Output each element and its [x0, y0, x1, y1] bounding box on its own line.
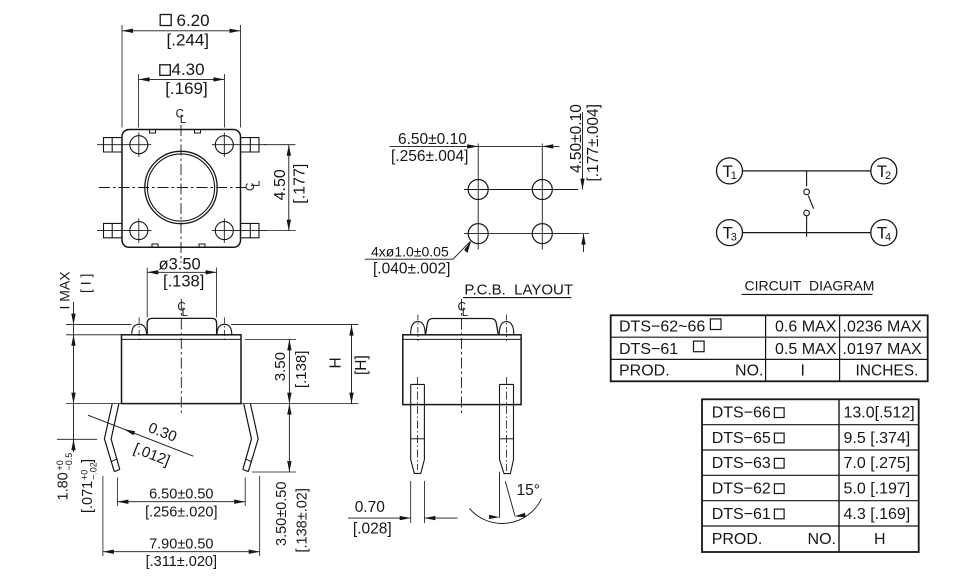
pcb hole bottom-right [532, 224, 552, 244]
svg-text:5.0 [.197]: 5.0 [.197] [844, 481, 911, 498]
dimension 0.30 text [146, 419, 179, 445]
pcb horizontal line lower row [464, 233, 578, 235]
table1 row lines [611, 337, 928, 359]
svg-text:9.5 [.374]: 9.5 [.374] [844, 430, 911, 447]
svg-text:4.3 [.169]: 4.3 [.169] [844, 506, 911, 523]
front dimension [.138] top text [163, 272, 204, 290]
svg-text:H: H [327, 357, 344, 368]
side centerline symbol [458, 302, 469, 319]
dimension 0.70 arrows [400, 516, 436, 520]
svg-text:6.50±0.50: 6.50±0.50 [149, 486, 213, 502]
switch lower stem wire [806, 216, 808, 237]
svg-text:[.256±.020]: [.256±.020] [145, 504, 217, 520]
svg-text:[.071: [.071 [80, 481, 96, 513]
pcb horizontal line upper row [464, 189, 578, 191]
dimension 0.70 line right [424, 517, 457, 519]
pin bottom-left crosshair [138, 218, 140, 242]
side right peg [499, 322, 514, 335]
dimension 6.20 extension lines [122, 25, 241, 128]
circuit diagram title [745, 278, 875, 294]
dimension 1.80 text [55, 453, 74, 501]
[ I ] text [78, 274, 94, 293]
left side tab upper [104, 138, 123, 152]
dimension 4.30 text [172, 60, 205, 79]
dimension 0.30 leader arrow [124, 429, 135, 435]
I MAX arrows [71, 314, 75, 346]
front free-position line right segment [231, 324, 359, 326]
top view horizontal centerline [99, 187, 249, 189]
dimension 3.50 body arrows [287, 339, 291, 403]
dimension 7.90 text [149, 536, 213, 552]
table1 outer border [611, 315, 928, 381]
side left leg centerline [417, 377, 419, 470]
pin centerline right upper [212, 144, 266, 146]
svg-text:[.138]: [.138] [293, 351, 310, 389]
side button [426, 318, 499, 334]
side body lid line [403, 338, 521, 340]
svg-text:15°: 15° [517, 482, 540, 499]
svg-text:I: I [801, 363, 805, 380]
svg-text:DTS−62~66: DTS−62~66 [619, 319, 705, 336]
dimension [.028] text [353, 521, 392, 538]
front right peg centerline [223, 318, 225, 342]
dimension 4.50 pcb text [568, 104, 585, 173]
dimension 1.80 arrows [71, 393, 75, 451]
front body [122, 335, 242, 404]
dimension 7.90 extension lines [103, 476, 260, 556]
dimension 6.50 pcb line [390, 145, 560, 147]
dimension 6.20 line [122, 30, 241, 32]
dimension H line [351, 325, 353, 404]
dimension [.244] text [167, 30, 210, 49]
dimension [.138+-.02] text [295, 488, 311, 552]
side 15deg arc arrows [489, 513, 526, 519]
dimension 4.50 pcb lower leader line [583, 234, 585, 253]
svg-text:1: 1 [731, 170, 737, 182]
side left peg centerline [417, 315, 419, 342]
pin centerline left lower [97, 230, 151, 232]
dimension H text [327, 357, 344, 368]
dimension 4.50 pcb upper leader line [582, 112, 584, 190]
terminal T1 [717, 158, 743, 184]
dimension [.169] text [165, 79, 208, 98]
dimension [.177] text [292, 164, 309, 204]
dimension 6.50 front extension lines [117, 478, 245, 507]
front dimension o3.50 text [159, 255, 201, 273]
switch upper stem wire [806, 171, 808, 187]
I MAX text [57, 271, 73, 310]
bottom edge notch [152, 244, 205, 247]
pin centerline left upper [97, 144, 151, 146]
svg-text:[.169]: [.169] [165, 79, 208, 98]
dimension 0.30 leader line [88, 415, 193, 456]
right side tab upper [241, 138, 260, 152]
front right leg tick [245, 459, 251, 462]
dimension 7.90 arrows [103, 550, 260, 554]
svg-text:4.30: 4.30 [172, 60, 205, 79]
right side tab lower [241, 223, 260, 237]
dimension 4.50 right arrows [287, 145, 291, 231]
svg-text:NO.: NO. [735, 363, 763, 380]
dimension 6.50 pcb arrows [467, 144, 553, 148]
pin centerline right lower [212, 230, 266, 232]
svg-text:.0236 MAX: .0236 MAX [843, 319, 922, 336]
dimension 4.50 right line [288, 145, 290, 231]
switch lower contact [804, 210, 810, 216]
dimension 4.50 right extension lines [264, 145, 296, 231]
svg-text:PROD.: PROD. [619, 363, 670, 380]
dimension 3.50 body line [288, 339, 290, 403]
pin top-left crosshair [138, 133, 140, 157]
svg-text:4: 4 [885, 232, 891, 244]
svg-text:DTS−61: DTS−61 [712, 506, 771, 523]
svg-text:[ I ]: [ I ] [78, 274, 94, 293]
dimension 4.50 pcb arrows [580, 179, 585, 245]
svg-text:3: 3 [731, 232, 737, 244]
side 15deg arc [469, 499, 541, 524]
pcb hole bottom-left [468, 224, 488, 244]
pin circle top-right [215, 136, 233, 154]
dimension 4x hole text [371, 243, 449, 259]
dimension [.071] text [80, 459, 99, 513]
dimension 3.50+-0.50 arrows [287, 404, 291, 472]
button outer circle [145, 151, 217, 223]
svg-text:−0.5: −0.5 [64, 453, 74, 471]
dimension 4x hole leader underline [365, 242, 470, 260]
dimension 7.90 line [103, 551, 260, 553]
front free-position line left segment [66, 324, 132, 326]
svg-text:DTS−65: DTS−65 [712, 430, 771, 447]
dimension [.256 front] text [145, 504, 217, 520]
side right leg centerline [506, 377, 508, 471]
side right leg tick [500, 438, 514, 440]
centerline symbol top [176, 109, 187, 126]
dimension 6.50 front arrows [117, 500, 245, 504]
svg-text:INCHES.: INCHES. [856, 363, 919, 380]
front button [147, 318, 216, 334]
table2 squares [774, 408, 784, 519]
svg-text:[.138]: [.138] [163, 272, 204, 290]
front vertical centerline [180, 299, 182, 416]
side left leg tick [411, 438, 425, 440]
svg-text:−.02: −.02 [89, 462, 99, 480]
svg-text:1.80: 1.80 [56, 472, 72, 500]
svg-text:[H]: [H] [353, 355, 370, 375]
table2 row lines [702, 425, 919, 526]
front dimension o3.50 arrows [147, 270, 216, 274]
side left leg [411, 384, 425, 473]
pin bottom-right crosshair [223, 218, 225, 242]
svg-text:L: L [182, 307, 189, 319]
svg-text:4xø1.0±0.05: 4xø1.0±0.05 [371, 243, 449, 259]
front body lid line [122, 338, 242, 340]
dimension 3.50 body extension line [245, 338, 296, 340]
svg-text:[.138±.02]: [.138±.02] [295, 488, 311, 552]
svg-text:4.50: 4.50 [272, 169, 289, 200]
switch upper contact [804, 189, 810, 195]
svg-text:[.311±.020]: [.311±.020] [146, 554, 217, 570]
svg-text:3.50±0.50: 3.50±0.50 [274, 482, 290, 546]
svg-text:DTS−62: DTS−62 [712, 481, 771, 498]
svg-text:6.20: 6.20 [177, 11, 210, 30]
wire T1-T2 [743, 170, 871, 172]
side 15deg text [517, 482, 540, 499]
svg-text:[.177]: [.177] [292, 164, 309, 204]
pcb layout title underline [463, 297, 572, 299]
table2 column line [838, 399, 840, 552]
svg-text:4.50±0.10: 4.50±0.10 [568, 104, 585, 173]
dimension 3.50+-0.50 text [274, 482, 290, 546]
dimension 4.30 arrows [139, 77, 225, 81]
front left peg centerline [138, 318, 140, 342]
dimension sq 6.20 square symbol [160, 15, 171, 26]
svg-text:NO.: NO. [808, 531, 836, 548]
wire T3-T4 [743, 232, 871, 234]
dimension [.177 pcb] text [585, 104, 602, 181]
front body top extension line left [66, 334, 122, 336]
pcb hole top-right [532, 180, 552, 200]
dimension 3.50+-0.50 line [288, 404, 290, 472]
dimension sq 4.30 square symbol [160, 65, 171, 76]
circuit diagram title underline [742, 293, 873, 295]
svg-text:P.C.B. LAYOUT: P.C.B. LAYOUT [464, 281, 573, 298]
pin circle bottom-left [130, 222, 148, 240]
svg-text:6.50±0.10: 6.50±0.10 [398, 131, 467, 148]
dimension 0.70 extension lines [411, 481, 425, 523]
dimension 4.30 extension lines [139, 74, 225, 128]
table1 text [619, 319, 922, 380]
svg-text:0.70: 0.70 [355, 499, 386, 516]
centerline symbol right [245, 180, 262, 191]
front right peg [217, 324, 232, 335]
dimension 6.20 text [177, 11, 210, 30]
top view body outline [122, 130, 241, 248]
table1 column lines [766, 315, 840, 381]
front dimension o3.50 extension lines [147, 268, 216, 318]
switch arm [808, 196, 813, 209]
svg-text:CIRCUIT DIAGRAM: CIRCUIT DIAGRAM [745, 278, 875, 294]
pin circle top-left [130, 136, 148, 154]
pin circle bottom-right [215, 222, 233, 240]
dimension 6.50 front line [117, 501, 245, 503]
side left peg [411, 322, 426, 335]
svg-text:7.90±0.50: 7.90±0.50 [149, 536, 213, 552]
svg-text:[.028]: [.028] [353, 521, 392, 538]
svg-text:[.256±.004]: [.256±.004] [391, 148, 468, 165]
svg-text:0.5 MAX: 0.5 MAX [775, 341, 837, 358]
dimension 6.50 front text [149, 486, 213, 502]
terminal T2 [871, 158, 897, 184]
button inner circle [147, 154, 214, 221]
front body bottom extension left [66, 403, 122, 405]
dimension [.012] text [131, 440, 172, 469]
svg-text:L: L [250, 180, 262, 187]
side right leg [500, 384, 514, 473]
svg-text:I MAX: I MAX [57, 271, 73, 310]
svg-text:7.0 [.275]: 7.0 [.275] [844, 455, 911, 472]
dimension 4x hole leader arrow [464, 240, 471, 253]
side leg splay line 15deg [505, 481, 515, 516]
dimension 6.20 arrows [122, 29, 241, 33]
dimension [.256 pcb] text [391, 148, 468, 165]
front right leg [243, 404, 258, 472]
svg-text:DTS−63: DTS−63 [712, 455, 771, 472]
side right leg edge extension line (15 deg reference) [499, 472, 501, 518]
dimension H arrows [349, 325, 353, 404]
front left peg [132, 324, 147, 335]
svg-text:DTS−61: DTS−61 [619, 341, 678, 358]
front body bottom extension right [241, 403, 359, 405]
front left leg [104, 404, 119, 472]
terminal T4 [871, 220, 897, 246]
svg-text:[.244]: [.244] [167, 30, 210, 49]
dimension 3.50 body text [272, 352, 289, 381]
dimension 4.30 line [139, 78, 225, 80]
svg-text:PROD.: PROD. [712, 531, 763, 548]
svg-text:[.177±.004]: [.177±.004] [585, 104, 602, 181]
dimension 1.80 extension line [57, 438, 97, 440]
front dimension o3.50 line [147, 271, 216, 273]
dimension 4.50 pcb extension lines [553, 190, 589, 234]
top view vertical centerline [180, 125, 182, 263]
left side tab lower [104, 223, 123, 237]
dimension [.138] body text [293, 351, 310, 389]
top edge notch [150, 130, 201, 133]
svg-text:DTS−66: DTS−66 [712, 405, 771, 422]
svg-text:[.040±.002]: [.040±.002] [373, 260, 450, 277]
table1 row2 square [694, 341, 705, 352]
svg-text:.0197 MAX: .0197 MAX [843, 341, 922, 358]
svg-text:3.50: 3.50 [272, 352, 289, 381]
side body [403, 335, 521, 405]
svg-text:L: L [462, 307, 469, 319]
table2 text [712, 405, 915, 549]
pcb hole top-left [468, 180, 488, 200]
svg-text:]: ] [80, 459, 96, 463]
pcb layout title [464, 281, 573, 298]
dimension [.040] text [373, 260, 450, 277]
svg-text:0.6 MAX: 0.6 MAX [775, 319, 837, 336]
pcb vertical line left column [477, 144, 479, 250]
svg-text:2: 2 [885, 170, 891, 182]
dimension 3.50+-0.50 extension line [252, 471, 296, 473]
front centerline symbol [177, 302, 188, 319]
table1 row1 squares [710, 319, 721, 330]
table2 outer border [702, 399, 919, 552]
dimension [.311] text [146, 554, 217, 570]
dimension 0.70 text [355, 499, 386, 516]
front left leg tick [111, 459, 117, 462]
dimension 4.50 text [272, 169, 289, 200]
terminal T3 [717, 220, 743, 246]
left column dimension line [73, 302, 75, 452]
svg-text:ø3.50: ø3.50 [159, 255, 201, 273]
side vertical centerline [461, 299, 463, 416]
pin top-right crosshair [223, 133, 225, 157]
svg-text:13.0[.512]: 13.0[.512] [844, 405, 915, 422]
svg-text:L: L [180, 114, 187, 126]
dimension 0.70 line left [348, 517, 411, 519]
dimension 6.50 pcb text [398, 131, 467, 148]
side right peg centerline [506, 315, 508, 342]
pcb vertical line right column [541, 144, 543, 250]
svg-text:H: H [874, 531, 886, 548]
dimension [H] text [353, 355, 370, 375]
